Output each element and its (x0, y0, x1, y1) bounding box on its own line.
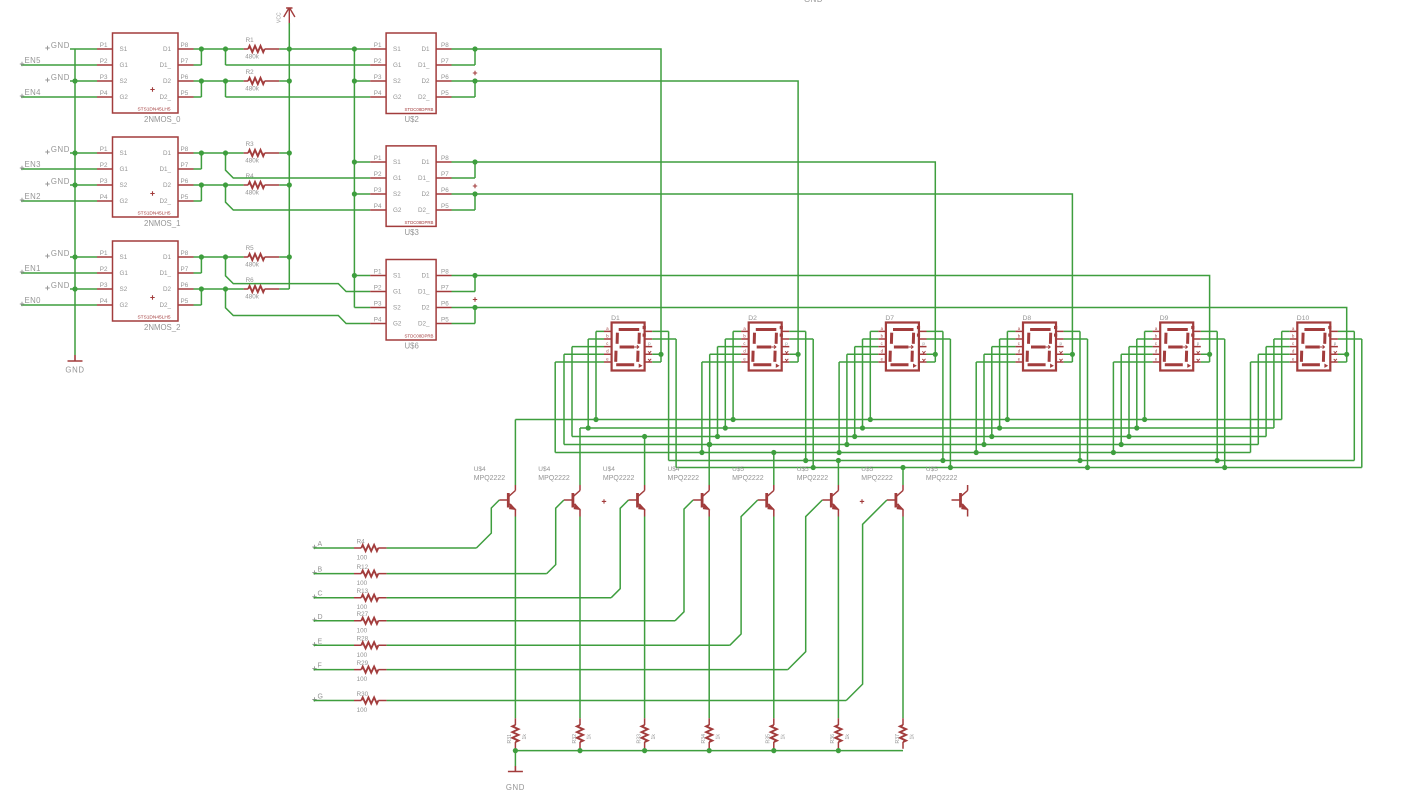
svg-text:P3: P3 (100, 178, 108, 185)
svg-text:b: b (743, 333, 746, 338)
ground GND (bottom) (508, 766, 523, 772)
segments of D2 (753, 330, 777, 365)
svg-text:R28: R28 (357, 636, 369, 643)
label GND (45, 78, 49, 82)
wire D2/D2_ join at 2NMOS_1 (194, 185, 244, 201)
svg-text:P7: P7 (181, 266, 189, 273)
wire emitter of #5 down (773, 517, 775, 719)
svg-text:GND: GND (51, 281, 70, 290)
svg-text:S2: S2 (393, 191, 401, 198)
svg-text:P8: P8 (181, 250, 189, 257)
svg-text:P4: P4 (100, 194, 108, 201)
wire D2/D2_ join at 2NMOS_2 (194, 289, 244, 305)
wire GND to P3 of 2NMOS_0 (70, 80, 97, 82)
svg-text:c: c (1018, 341, 1020, 346)
svg-text:d: d (606, 349, 609, 354)
svg-text:P3: P3 (100, 282, 108, 289)
svg-text:c: c (606, 341, 608, 346)
svg-text:G1: G1 (120, 62, 129, 69)
svg-text:P7: P7 (441, 285, 449, 292)
label GND (45, 150, 49, 154)
svg-text:G2: G2 (393, 207, 402, 214)
svg-text:D7: D7 (885, 315, 894, 322)
svg-text:P2: P2 (100, 266, 108, 273)
svg-text:D1: D1 (163, 150, 172, 157)
svg-text:R4: R4 (246, 173, 255, 180)
transistor U$4 (MPQ2222) #4 (693, 485, 709, 517)
svg-text:GND: GND (51, 41, 70, 50)
resistor R3 (248, 150, 264, 156)
ic U$3 body (386, 146, 436, 227)
svg-text:100: 100 (357, 707, 368, 714)
label B (312, 570, 316, 574)
svg-text:P6: P6 (441, 187, 449, 194)
label GND (45, 254, 49, 258)
wire to U$2 P4 (226, 81, 371, 97)
svg-text:B: B (318, 567, 323, 574)
svg-text:P7: P7 (441, 171, 449, 178)
svg-text:D1_: D1_ (159, 270, 171, 277)
wire D1/D1_ join at 2NMOS_2 (194, 257, 244, 273)
nodes D7 f,g bus joins (940, 458, 945, 463)
ic 2NMOS_2 body (113, 241, 179, 321)
node common junction digit 6 (1344, 352, 1349, 357)
wire GND to P3 of 2NMOS_2 (70, 288, 97, 290)
nodes GND rail junctions (513, 748, 518, 753)
svg-text:1k: 1k (522, 734, 528, 740)
resistor R6 (248, 286, 264, 292)
bus wire segment a (515, 419, 1281, 421)
svg-text:e: e (606, 356, 609, 361)
svg-text:G2: G2 (120, 302, 129, 309)
svg-text:MPQ2222: MPQ2222 (861, 475, 893, 482)
svg-text:P5: P5 (441, 203, 449, 210)
origin cross near U$3 (473, 184, 477, 188)
svg-text:e: e (881, 356, 884, 361)
label GND (45, 286, 49, 290)
wire base feed #6 from F (788, 500, 823, 670)
svg-text:c: c (881, 341, 883, 346)
wires D10 common pins (1338, 354, 1347, 362)
svg-text:P1: P1 (100, 146, 108, 153)
wires D2 segment pins a-e (702, 331, 741, 452)
svg-text:R1: R1 (246, 37, 255, 44)
svg-text:STDC08DPRB: STDC08DPRB (404, 334, 433, 339)
wires D2 common pins (789, 354, 798, 362)
wire R30 output (387, 700, 847, 702)
svg-text:d: d (1155, 349, 1158, 354)
nodes D8 a-e bus joins (1005, 417, 1010, 422)
pins of D10 (1290, 331, 1338, 362)
wire R4 right lead (279, 184, 289, 186)
svg-text:MPQ2222: MPQ2222 (538, 475, 570, 482)
label EN3 (20, 166, 24, 170)
svg-text:p: p (1197, 341, 1200, 346)
svg-text:P2: P2 (100, 162, 108, 169)
svg-text:E: E (318, 638, 323, 645)
svg-text:e: e (1155, 356, 1158, 361)
wire emitter of #1 down (514, 517, 516, 719)
svg-text:P5: P5 (181, 298, 189, 305)
svg-text:EN5: EN5 (25, 56, 42, 65)
label F (312, 666, 316, 670)
label C (312, 595, 316, 599)
svg-text:S1: S1 (120, 150, 128, 157)
svg-text:D1: D1 (163, 46, 172, 53)
label GND (45, 46, 49, 50)
svg-text:S2: S2 (120, 78, 128, 85)
wire to U$2 P1 (289, 48, 370, 50)
bus wire segment e (555, 452, 1250, 454)
svg-text:100: 100 (357, 652, 368, 659)
svg-text:D1: D1 (421, 46, 430, 53)
transistor U$4 (MPQ2222) #1 (499, 485, 515, 517)
svg-text:100: 100 (357, 555, 368, 562)
wire digit 2 common feed (475, 81, 798, 362)
pins of D1 (604, 331, 652, 362)
resistor R12 (361, 571, 378, 577)
resistor R4 (248, 182, 264, 188)
resistor R37 (900, 725, 906, 742)
resistor R33 (642, 725, 648, 742)
wires D7 segment pins a-e (839, 331, 878, 452)
wire EN0 (21, 304, 97, 306)
svg-text:b: b (1292, 333, 1295, 338)
wire to U$6 P2 (226, 257, 371, 292)
wire R1 right lead (279, 48, 289, 50)
label G (312, 697, 316, 701)
svg-text:R37: R37 (895, 734, 901, 744)
wire R29 output (387, 669, 788, 671)
wire R5 right lead (279, 256, 289, 258)
wire R13 output (387, 597, 612, 599)
svg-text:D2: D2 (163, 182, 172, 189)
pins of U$6 (370, 276, 451, 324)
svg-text:R33: R33 (636, 734, 642, 744)
wire EN5 (21, 64, 97, 66)
resistor R29 (361, 667, 378, 673)
svg-text:P8: P8 (181, 146, 189, 153)
svg-text:P8: P8 (441, 42, 449, 49)
svg-text:P8: P8 (441, 269, 449, 276)
wire to U$2 P2 (226, 49, 371, 65)
wires D7 common pins (927, 354, 936, 362)
wire R2 right lead (279, 80, 289, 82)
svg-text:STS1DN45LH5: STS1DN45LH5 (137, 315, 170, 321)
svg-text:D2: D2 (421, 191, 430, 198)
svg-text:480k: 480k (245, 262, 260, 269)
bus wire segment d (564, 444, 1258, 446)
node GND junction (72, 182, 77, 187)
wires D1 f and g pins (652, 331, 676, 467)
label D (312, 618, 316, 622)
svg-text:U$5: U$5 (861, 466, 873, 473)
svg-text:MPQ2222: MPQ2222 (603, 475, 635, 482)
svg-text:S1: S1 (120, 46, 128, 53)
resistor R28 (361, 642, 378, 648)
svg-text:c: c (743, 341, 745, 346)
label E (312, 642, 316, 646)
wire E to resistor (314, 644, 355, 646)
resistor R27 (361, 618, 378, 624)
svg-text:2NMOS_1: 2NMOS_1 (144, 219, 180, 228)
pins of U$2 (370, 49, 451, 97)
node common junction digit 3 (933, 352, 938, 357)
svg-text:STS1DN45LH5: STS1DN45LH5 (137, 211, 170, 217)
resistor R5 (248, 254, 264, 260)
svg-text:480k: 480k (245, 86, 260, 93)
nodes D2 f,g bus joins (803, 458, 808, 463)
segments of D10 (1301, 330, 1325, 365)
svg-text:G1: G1 (120, 270, 129, 277)
svg-text:p: p (1060, 341, 1063, 346)
svg-text:P1: P1 (100, 250, 108, 257)
svg-text:1k: 1k (845, 734, 851, 740)
transistor U$5 (MPQ2222) #8 (952, 485, 968, 517)
origin cross U$4 (602, 499, 606, 503)
svg-text:R12: R12 (357, 564, 369, 571)
svg-text:R13: R13 (357, 588, 369, 595)
wire R6 right lead (279, 288, 289, 290)
svg-text:S1: S1 (120, 254, 128, 261)
svg-text:e: e (743, 356, 746, 361)
wire EN4 (21, 96, 97, 98)
resistor R13 (361, 595, 378, 601)
svg-text:D1_: D1_ (418, 289, 430, 296)
svg-text:P5: P5 (181, 90, 189, 97)
svg-text:P5: P5 (181, 194, 189, 201)
nodes D9 f,g bus joins (1215, 458, 1220, 463)
wire R12 output (387, 573, 547, 575)
svg-text:EN3: EN3 (25, 160, 41, 169)
wires D9 segment pins a-e (1113, 331, 1152, 452)
wire U$3 P8/P7 join (452, 162, 476, 178)
svg-text:D1_: D1_ (159, 62, 171, 69)
node GND junction (72, 254, 77, 259)
svg-text:100: 100 (357, 604, 368, 611)
wire GND to P1 of 2NMOS_2 (70, 256, 97, 258)
wire collector of #1 to bus a (514, 420, 516, 486)
svg-text:a: a (606, 326, 609, 331)
svg-text:S2: S2 (393, 305, 401, 312)
svg-text:D2: D2 (421, 305, 430, 312)
wire to U$2 P3 (354, 80, 370, 82)
svg-text:S2: S2 (120, 286, 128, 293)
svg-text:D2_: D2_ (418, 321, 430, 328)
svg-text:GND: GND (506, 783, 525, 792)
svg-text:EN1: EN1 (25, 264, 41, 273)
svg-text:p: p (785, 341, 788, 346)
svg-text:p: p (922, 341, 925, 346)
svg-text:D2: D2 (163, 286, 172, 293)
wire U$2 P8/P7 join (452, 49, 476, 65)
svg-text:R31: R31 (507, 734, 513, 744)
svg-text:a: a (743, 326, 746, 331)
svg-text:a: a (1292, 326, 1295, 331)
wire base feed #5 from E (730, 500, 758, 645)
svg-text:p: p (648, 341, 651, 346)
origin cross U$5 (860, 499, 864, 503)
label A (312, 545, 316, 549)
node common junction digit 4 (1070, 352, 1075, 357)
svg-text:P1: P1 (100, 42, 108, 49)
wire to U$6 P4 (226, 289, 371, 324)
wire collector of #7 to bus g (902, 468, 904, 486)
svg-text:U$5: U$5 (732, 466, 744, 473)
svg-text:P2: P2 (374, 285, 382, 292)
svg-text:b: b (1155, 333, 1158, 338)
display D1 body (612, 323, 645, 371)
svg-text:D2_: D2_ (418, 94, 430, 101)
svg-text:D2: D2 (163, 78, 172, 85)
svg-text:P7: P7 (181, 58, 189, 65)
node common junction digit 5 (1207, 352, 1212, 357)
origin cross near U$6 (473, 297, 477, 301)
svg-text:D8: D8 (1023, 315, 1032, 322)
wire F to resistor (314, 669, 355, 671)
svg-text:G2: G2 (393, 94, 402, 101)
svg-text:G1: G1 (393, 175, 402, 182)
display D9 body (1160, 323, 1193, 371)
wire emitter of #2 down (579, 517, 581, 719)
svg-text:R36: R36 (830, 734, 836, 744)
ic 2NMOS_0 body (113, 33, 179, 113)
display D7 body (886, 323, 919, 371)
svg-text:d: d (1292, 349, 1295, 354)
svg-text:P6: P6 (181, 74, 189, 81)
pins of 2NMOS_1 (97, 153, 194, 201)
svg-text:G2: G2 (120, 198, 129, 205)
bus wire segment f (669, 460, 1355, 462)
wire D1/D1_ join at 2NMOS_0 (194, 49, 244, 65)
svg-text:100: 100 (357, 580, 368, 587)
wire C to resistor (314, 597, 355, 599)
svg-text:P7: P7 (181, 162, 189, 169)
pins of D2 (741, 331, 789, 362)
wire D2/D2_ join at 2NMOS_0 (194, 81, 244, 97)
wires D9 common pins (1201, 354, 1210, 362)
segments of D9 (1164, 330, 1188, 365)
svg-text:G1: G1 (393, 289, 402, 296)
node GND junction (72, 150, 77, 155)
nodes D7 a-e bus joins (868, 417, 873, 422)
transistor U$4 (MPQ2222) #3 (629, 485, 645, 517)
svg-text:GND: GND (65, 366, 84, 375)
svg-text:p: p (1334, 341, 1337, 346)
supply symbol VCC (284, 8, 295, 24)
svg-text:P5: P5 (441, 90, 449, 97)
svg-text:D: D (318, 614, 323, 621)
svg-text:P4: P4 (374, 203, 382, 210)
svg-text:D9: D9 (1160, 315, 1169, 322)
svg-text:C: C (318, 591, 323, 598)
svg-text:P3: P3 (374, 74, 382, 81)
wires D8 common pins (1064, 354, 1073, 362)
wire U$3 P6/P5 join (452, 194, 476, 210)
svg-text:D2_: D2_ (418, 207, 430, 214)
wire to U$3 P3 (354, 193, 370, 195)
svg-text:D1_: D1_ (159, 166, 171, 173)
svg-text:U$4: U$4 (603, 466, 615, 473)
segments of D8 (1027, 330, 1051, 365)
ic U$6 body (386, 260, 436, 341)
nodes D9 a-e bus joins (1142, 417, 1147, 422)
svg-text:EN2: EN2 (25, 192, 41, 201)
ic U$2 body (386, 33, 436, 114)
svg-text:b: b (1018, 333, 1021, 338)
wire EN3 (21, 168, 97, 170)
wires D8 segment pins a-e (976, 331, 1015, 452)
node common junction digit 1 (658, 352, 663, 357)
svg-text:U$3: U$3 (405, 228, 419, 237)
svg-text:c: c (1292, 341, 1294, 346)
svg-text:a: a (881, 326, 884, 331)
svg-text:D2_: D2_ (159, 94, 171, 101)
wire G to resistor (314, 700, 355, 702)
svg-text:R32: R32 (572, 734, 578, 744)
svg-text:R4: R4 (357, 538, 366, 545)
label EN0 (20, 302, 24, 306)
transistor U$5 (MPQ2222) #7 (887, 485, 903, 517)
wire to ground (514, 751, 516, 766)
wire collector of #3 to bus c (644, 437, 646, 486)
svg-text:480k: 480k (245, 294, 260, 301)
label EN5 (20, 62, 24, 66)
svg-text:c: c (1155, 341, 1157, 346)
nodes D8 f,g bus joins (1077, 458, 1082, 463)
svg-text:R3: R3 (246, 141, 255, 148)
wire collector of #6 to bus f (837, 461, 839, 486)
pins of 2NMOS_2 (97, 257, 194, 305)
bus wire segment c (572, 436, 1266, 438)
svg-text:1k: 1k (780, 734, 786, 740)
resistor R31 (512, 725, 518, 742)
svg-text:P1: P1 (374, 155, 382, 162)
pins of D7 (878, 331, 926, 362)
display D2 body (749, 323, 782, 371)
svg-text:G2: G2 (120, 94, 129, 101)
wires D8 f and g pins (1064, 331, 1088, 467)
transistor U$4 (MPQ2222) #2 (564, 485, 580, 517)
svg-text:MPQ2222: MPQ2222 (926, 475, 958, 482)
svg-text:D10: D10 (1297, 315, 1310, 322)
wire GND to P3 of 2NMOS_1 (70, 184, 97, 186)
svg-text:P1: P1 (374, 269, 382, 276)
wire to U$6 P3 (354, 307, 370, 309)
svg-text:P2: P2 (100, 58, 108, 65)
wire digit 3 common feed (475, 162, 935, 362)
wires D7 f and g pins (927, 331, 951, 467)
svg-text:R34: R34 (701, 734, 707, 744)
svg-text:G1: G1 (393, 62, 402, 69)
wires D9 f and g pins (1201, 331, 1225, 467)
svg-text:100: 100 (357, 676, 368, 683)
svg-text:P2: P2 (374, 58, 382, 65)
svg-text:P4: P4 (100, 298, 108, 305)
svg-text:MPQ2222: MPQ2222 (797, 475, 829, 482)
svg-text:STDC08DPRB: STDC08DPRB (404, 107, 433, 112)
svg-text:S1: S1 (393, 273, 401, 280)
svg-text:S2: S2 (393, 78, 401, 85)
resistor R30 (361, 697, 378, 703)
svg-text:STDC08DPRB: STDC08DPRB (404, 220, 433, 225)
svg-text:STS1DN45LH5: STS1DN45LH5 (137, 107, 170, 113)
wire emitter of #4 down (708, 517, 710, 719)
svg-text:G1: G1 (120, 166, 129, 173)
svg-text:MPQ2222: MPQ2222 (474, 475, 506, 482)
svg-text:480k: 480k (245, 190, 260, 197)
svg-text:A: A (318, 541, 323, 548)
